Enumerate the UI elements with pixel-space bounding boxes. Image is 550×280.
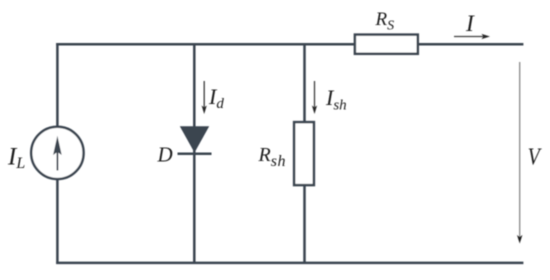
wire: left vertical lower segment — [56, 178, 59, 264]
arrow I_sh (current into shunt) — [312, 81, 317, 114]
svg-text:D: D — [157, 143, 173, 167]
wire: top rail from left corner to right terminal — [56, 43, 523, 46]
svg-text:Id: Id — [208, 84, 224, 112]
svg-text:Ish: Ish — [325, 85, 347, 114]
svg-text:RS: RS — [375, 9, 395, 34]
arrow I_d (current into diode) — [202, 81, 207, 114]
svg-text:I: I — [465, 11, 475, 37]
svg-text:IL: IL — [7, 144, 25, 173]
svg-text:V: V — [528, 144, 543, 171]
resistor R_sh (vertical box) — [294, 122, 314, 185]
arrow I (output current, horizontal) — [454, 34, 490, 39]
wire: diode branch vertical — [193, 44, 196, 263]
svg-text:Rsh: Rsh — [258, 144, 286, 170]
current source I_L (circle with up arrow) — [31, 127, 83, 179]
resistor R_S (horizontal box on top rail) — [355, 35, 418, 54]
wire: left vertical upper segment — [56, 43, 59, 128]
wire: bottom rail — [56, 262, 523, 265]
arrow V (terminal voltage, vertical gray) — [517, 62, 522, 244]
diode D (filled down triangle with cathode bar) — [178, 126, 212, 154]
wire: shunt branch vertical — [303, 44, 306, 263]
